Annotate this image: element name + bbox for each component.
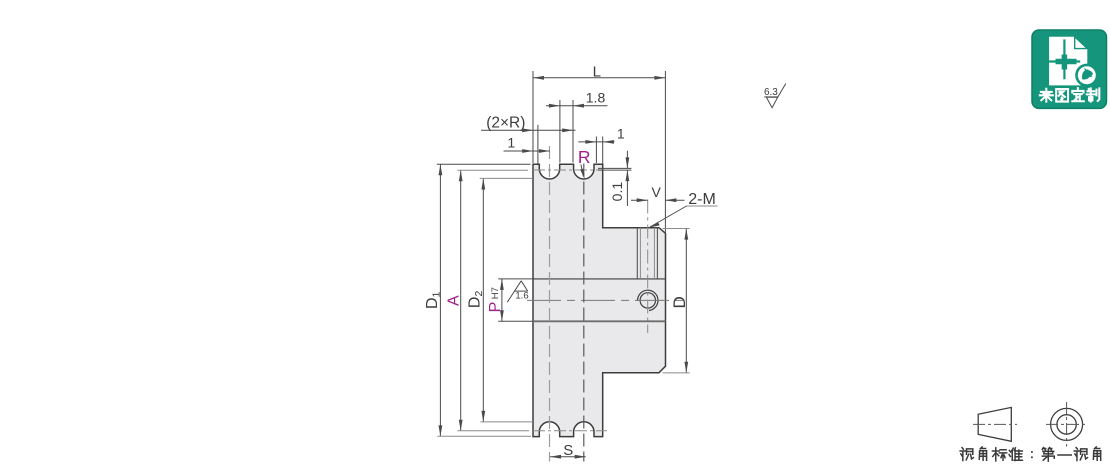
dimension D2: [481, 179, 485, 422]
first-angle projection circles symbol: [1051, 408, 1083, 440]
pitch line bottom: [533, 430, 607, 432]
svg-text:D: D: [670, 296, 689, 308]
svg-text:D1: D1: [424, 291, 443, 309]
dimension L: [533, 71, 665, 233]
tapped hole thread lines: [637, 228, 657, 279]
badge emblem circle: [1075, 64, 1098, 87]
svg-text:2-M: 2-M: [688, 191, 716, 208]
bore bottom line: [533, 320, 666, 322]
svg-text:6.3: 6.3: [764, 87, 778, 98]
bore top line: [533, 278, 666, 280]
svg-text:V: V: [652, 184, 662, 200]
svg-text:R: R: [578, 147, 591, 167]
svg-text:1.6: 1.6: [515, 291, 528, 302]
svg-text:S: S: [563, 442, 573, 459]
dimension D: [684, 229, 688, 373]
dimension 0.1: [598, 151, 631, 206]
svg-text:1: 1: [617, 126, 625, 142]
dimension 1.8: [546, 100, 608, 163]
dimension V: [631, 198, 685, 202]
dimension D1: [439, 164, 443, 436]
badge document icon: [1049, 37, 1087, 86]
dimension 1 right: [578, 137, 614, 164]
badge text 来图定制: [1040, 88, 1100, 101]
hole centerline vertical: [647, 200, 649, 334]
dimension (2xR): [481, 128, 576, 132]
pulley body cross-section: [533, 164, 666, 436]
svg-text:D2: D2: [467, 291, 486, 309]
groove centerline left: [549, 146, 551, 462]
svg-text:P: P: [487, 302, 504, 313]
svg-text:L: L: [593, 64, 601, 81]
svg-text:(2×R): (2×R): [486, 114, 525, 131]
pitch line top: [533, 169, 603, 171]
customization badge (green): [1032, 30, 1107, 108]
surface finish 1.6 symbol: [507, 281, 527, 302]
groove left edge extension line: [537, 125, 539, 164]
dimension S: [550, 455, 586, 459]
dimension 1 left: [504, 149, 551, 153]
axis centerline: [527, 299, 686, 301]
svg-text:A: A: [445, 295, 462, 306]
badge crosshair: [1047, 39, 1081, 79]
groove centerline right: [583, 164, 585, 462]
dimension A: [459, 170, 463, 431]
svg-text:1: 1: [507, 135, 515, 151]
surface finish 6.3 symbol: [764, 84, 786, 108]
dimension P H7: [500, 279, 504, 321]
caption: 视角标准：第一视角: [960, 447, 1101, 461]
set screw hole circle (thread arc): [638, 290, 658, 310]
svg-text:0.1: 0.1: [609, 182, 625, 202]
svg-text:1.8: 1.8: [586, 89, 606, 105]
first-angle projection cone symbol: [978, 407, 1011, 441]
svg-text:H7: H7: [490, 287, 501, 299]
